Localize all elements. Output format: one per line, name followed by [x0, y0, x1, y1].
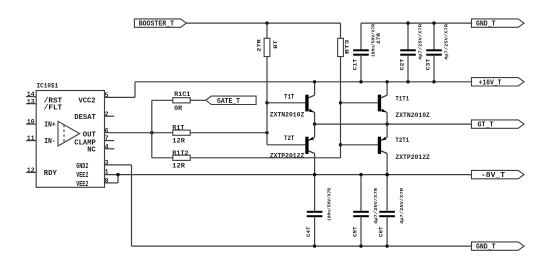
net flag BOOSTER_T [134, 19, 186, 29]
pin 13 stub [26, 103, 36, 105]
pin 2 stub DESAT [105, 115, 115, 117]
transistor T1T1 label [395, 95, 409, 102]
pin name VCC2 [79, 97, 96, 105]
junction C1T at +16V rail [359, 80, 362, 83]
pin number 12 [27, 167, 35, 174]
wire VCC2 riser up to +16V rail [134, 82, 136, 98]
pin name RDY [44, 170, 57, 178]
op-amp triangle inside IC [58, 121, 80, 146]
wire GND2 pin3 [105, 164, 132, 166]
capacitor C2T top wire [407, 23, 409, 50]
svg-text:13: 13 [27, 98, 35, 105]
svg-text:C1T: C1T [352, 58, 359, 70]
wire R1C1 left [152, 99, 173, 101]
pin 11 stub [26, 140, 36, 142]
capacitor C1T top wire [360, 23, 362, 50]
svg-text:OUT: OUT [83, 132, 96, 140]
wire VCC2 pin5 to riser [105, 96, 136, 98]
pin name /RST [44, 97, 63, 105]
pin 7 stub CLAMP [105, 140, 115, 142]
resistor BT3 label BT3 [344, 39, 351, 54]
resistor R1T2 value 12R [172, 162, 185, 169]
junction BT top on BOOSTER rail [265, 21, 268, 24]
wire OUT bus vertical [151, 100, 153, 158]
transistor T1T value ZXTN2010Z [270, 111, 305, 118]
svg-text:VEE2: VEE2 [76, 181, 88, 189]
junction T1T1 base [339, 101, 342, 104]
pin number 5 [105, 92, 109, 99]
svg-text:ZXTN2010Z: ZXTN2010Z [395, 112, 430, 119]
wire GND2 drop down [131, 165, 133, 246]
wire R1T right [190, 132, 267, 134]
capacitor C5T value [373, 188, 379, 224]
pin number 7 [105, 135, 109, 142]
wire OUT pin6 row [105, 132, 173, 134]
wire right base bus upper [340, 23, 342, 38]
pin number 14 [27, 91, 35, 98]
svg-text:GND_T: GND_T [476, 21, 496, 29]
svg-text:GATE_T: GATE_T [217, 98, 241, 106]
svg-text:VEE2: VEE2 [76, 172, 88, 180]
svg-text:4μ7/25V/X7R: 4μ7/25V/X7R [373, 188, 379, 224]
pin 12 stub [26, 171, 36, 173]
svg-text:GND_T: GND_T [476, 244, 496, 252]
pin number 6 [105, 127, 109, 134]
resistor R1T2 body [173, 155, 190, 160]
IC U1 designator label IC10$1 [37, 82, 59, 90]
svg-text:C6T: C6T [378, 226, 385, 237]
pin number 2 [105, 111, 109, 118]
svg-text:11: 11 [27, 135, 35, 142]
pin name GND2 [76, 163, 88, 171]
junction T1T collector at +16V rail [313, 80, 316, 83]
svg-text:12R: 12R [172, 162, 185, 169]
svg-text:4μ7/25V/X7R: 4μ7/25V/X7R [417, 24, 423, 60]
svg-text:10: 10 [27, 119, 35, 126]
junction C6T at -8V rail [385, 173, 388, 176]
svg-text:/FLT: /FLT [44, 105, 63, 113]
pin 4 stub NC [105, 148, 115, 150]
capacitor C6T top wire [386, 175, 388, 212]
wire left base bus upper [266, 23, 268, 38]
junction T1T1 emitter node GT [385, 122, 388, 125]
svg-text:-8V_T: -8V_T [481, 172, 506, 180]
capacitor C6T value [399, 188, 405, 224]
junction C3T at top GND rail [432, 21, 435, 24]
capacitor C2T label [398, 58, 405, 70]
svg-text:R1C1: R1C1 [174, 91, 191, 98]
pin number 13 [27, 98, 35, 105]
capacitor C4T bottom wire [314, 216, 316, 246]
wire bottom GND rail [132, 245, 472, 247]
svg-text:27R: 27R [256, 38, 263, 51]
pin number 4 [105, 143, 109, 150]
transistor T2T1 label [395, 137, 409, 144]
wire T1T1 base row [341, 102, 378, 104]
resistor BT3 body [338, 38, 344, 56]
capacitor C3T plates [426, 50, 442, 54]
capacitor C4T label [305, 226, 312, 237]
transistor T2T value ZXTP2012Z [270, 153, 305, 160]
capacitor C2T plates [400, 50, 416, 54]
capacitor C1T bottom wire [360, 55, 362, 82]
svg-text:100n/50V/X7R: 100n/50V/X7R [326, 188, 332, 221]
svg-text:4μ7/25V/X7R: 4μ7/25V/X7R [399, 188, 405, 224]
svg-text:IN-: IN- [44, 138, 56, 146]
svg-text:IC10$1: IC10$1 [37, 82, 59, 90]
capacitor C2T value [417, 24, 423, 60]
svg-text:14: 14 [27, 91, 35, 98]
transistor T2T1 value ZXTP2012Z [395, 154, 430, 161]
wire top GND rail [361, 22, 472, 24]
net flag GND_T bottom [472, 242, 525, 252]
svg-text:NC: NC [87, 147, 96, 155]
capacitor C3T bottom wire [433, 55, 435, 82]
pin name IN- [44, 138, 56, 146]
pin 10 stub [26, 123, 36, 125]
capacitor C4T value [326, 188, 332, 221]
junction T2T1 base [339, 143, 342, 146]
wire +16V rail [135, 81, 472, 83]
wire BOOSTER_T rail [186, 22, 340, 24]
capacitor C3T label [424, 58, 431, 70]
capacitor C6T plates [379, 212, 395, 216]
wire left base bus lower [266, 57, 268, 145]
capacitor C6T bottom wire [386, 216, 388, 246]
junction C5T at GND rail [359, 244, 362, 247]
junction T1T emitter node GT [313, 122, 316, 125]
transistor T2T symbol (PNP) [305, 124, 314, 175]
net flag +16V_T [472, 78, 525, 88]
junction T2T collector at -8V rail [313, 173, 316, 176]
junction C4T at -8V rail [313, 173, 316, 176]
pin name OUT [83, 132, 96, 140]
svg-text:GT_T: GT_T [478, 122, 495, 130]
junction OUT bus [150, 131, 153, 134]
net flag GND_T top [472, 19, 525, 29]
junction VEE2 jog [116, 173, 119, 176]
capacitor C3T value [443, 24, 449, 60]
resistor R1T2 label [172, 150, 189, 157]
svg-text:BT: BT [272, 39, 279, 48]
net flag GT_T [472, 120, 525, 130]
svg-text:+16V_T: +16V_T [479, 79, 503, 87]
svg-text:C5T: C5T [351, 226, 358, 237]
resistor R1T value 12R [172, 137, 185, 144]
svg-text:0R: 0R [174, 105, 182, 112]
svg-text:RDY: RDY [44, 170, 57, 178]
wire VEE2 pin8 jog [105, 175, 119, 183]
pin name /FLT [44, 105, 63, 113]
pin name IN+ [44, 122, 56, 130]
svg-text:T1T1: T1T1 [395, 95, 409, 102]
transistor T1T symbol (NPN) [305, 82, 314, 124]
junction C6T at GND rail [385, 244, 388, 247]
resistor R1C1 value 0R [174, 105, 182, 112]
wire GT row [315, 123, 472, 125]
capacitor C6T label [378, 226, 385, 237]
pin name VEE2 pin8 [76, 181, 88, 189]
pin number 1 [105, 169, 109, 176]
transistor T1T1 symbol (NPN) [378, 82, 387, 124]
wire T2T base row [267, 144, 305, 146]
svg-text:12R: 12R [172, 137, 185, 144]
capacitor C4T plates [307, 212, 323, 216]
pin number 3 [105, 160, 109, 167]
pin number 11 [27, 135, 35, 142]
capacitor C5T bottom wire [360, 216, 362, 246]
resistor BT body [264, 38, 270, 56]
svg-text:IN+: IN+ [44, 122, 56, 130]
junction T1T1 collector at +16V rail [385, 80, 388, 83]
svg-text:T2T: T2T [284, 135, 295, 142]
op-amp U1 IC body outline [36, 91, 104, 188]
junction R1T at left base bus [265, 131, 268, 134]
wire T2T1 base row [341, 144, 378, 146]
pin name CLAMP [74, 139, 96, 147]
svg-text:C4T: C4T [305, 226, 312, 237]
junction T2T1 collector at -8V rail [385, 173, 388, 176]
capacitor C5T label [351, 226, 358, 237]
capacitor C1T value [370, 24, 376, 57]
capacitor C5T plates [353, 212, 369, 216]
svg-text:VCC2: VCC2 [79, 97, 96, 105]
svg-text:ZXTP2012Z: ZXTP2012Z [395, 154, 430, 161]
resistor R1T body [173, 130, 190, 135]
svg-text:T1T: T1T [284, 94, 295, 101]
capacitor C5T top wire [360, 175, 362, 212]
resistor BT3 value 27R [375, 32, 382, 44]
svg-text:ZXTP2012Z: ZXTP2012Z [270, 153, 305, 160]
svg-text:4μ7/25V/X7R: 4μ7/25V/X7R [443, 24, 449, 60]
svg-text:C2T: C2T [398, 58, 405, 70]
capacitor C1T label [352, 58, 359, 70]
pin 14 stub [26, 96, 36, 98]
resistor R1T label [172, 125, 185, 132]
wire T1T base row [267, 102, 305, 104]
resistor R1C1 label [174, 91, 191, 98]
wire R1C1 right to GATE_T [190, 99, 206, 101]
junction C4T at GND rail [313, 244, 316, 247]
net flag GATE_T [206, 96, 256, 106]
capacitor C1T plates [353, 50, 369, 54]
junction T1T base [265, 101, 268, 104]
svg-text:ZXTN2010Z: ZXTN2010Z [270, 111, 305, 118]
wire right base bus lower [340, 57, 342, 158]
pin number 8 [105, 178, 109, 185]
transistor T1T label [284, 94, 295, 101]
pin number 10 [27, 119, 35, 126]
svg-text:C3T: C3T [424, 58, 431, 70]
resistor R1C1 body [173, 98, 190, 103]
svg-text:GND2: GND2 [76, 163, 88, 171]
junction C5T at -8V rail [359, 173, 362, 176]
pin name DESAT [74, 114, 96, 122]
wire VEE2 pin1 -8V rail [105, 174, 472, 176]
junction C2T at top GND rail [406, 21, 409, 24]
resistor BT value 27R [256, 38, 263, 51]
wire R1T2 left [152, 157, 173, 159]
svg-text:T2T1: T2T1 [395, 137, 409, 144]
transistor T2T1 symbol (PNP) [378, 124, 387, 175]
pin name NC [87, 147, 96, 155]
svg-text:100n/50V/X7R: 100n/50V/X7R [370, 24, 376, 57]
capacitor C3T top wire [433, 23, 435, 50]
svg-text:DESAT: DESAT [74, 114, 96, 122]
wire R1T2 right [190, 157, 340, 159]
transistor T2T label [284, 135, 295, 142]
svg-text:BOOSTER_T: BOOSTER_T [139, 21, 175, 29]
net flag -8V_T [472, 170, 525, 180]
capacitor C2T bottom wire [407, 55, 409, 82]
resistor BT label BT [272, 39, 279, 48]
transistor T1T1 value ZXTN2010Z [395, 112, 430, 119]
svg-text:12: 12 [27, 167, 35, 174]
pin name VEE2 pin1 [76, 172, 88, 180]
junction C2T at +16V rail [406, 80, 409, 83]
junction C3T at +16V rail [432, 80, 435, 83]
capacitor C4T top wire [314, 175, 316, 212]
svg-text:BT3: BT3 [344, 39, 351, 54]
